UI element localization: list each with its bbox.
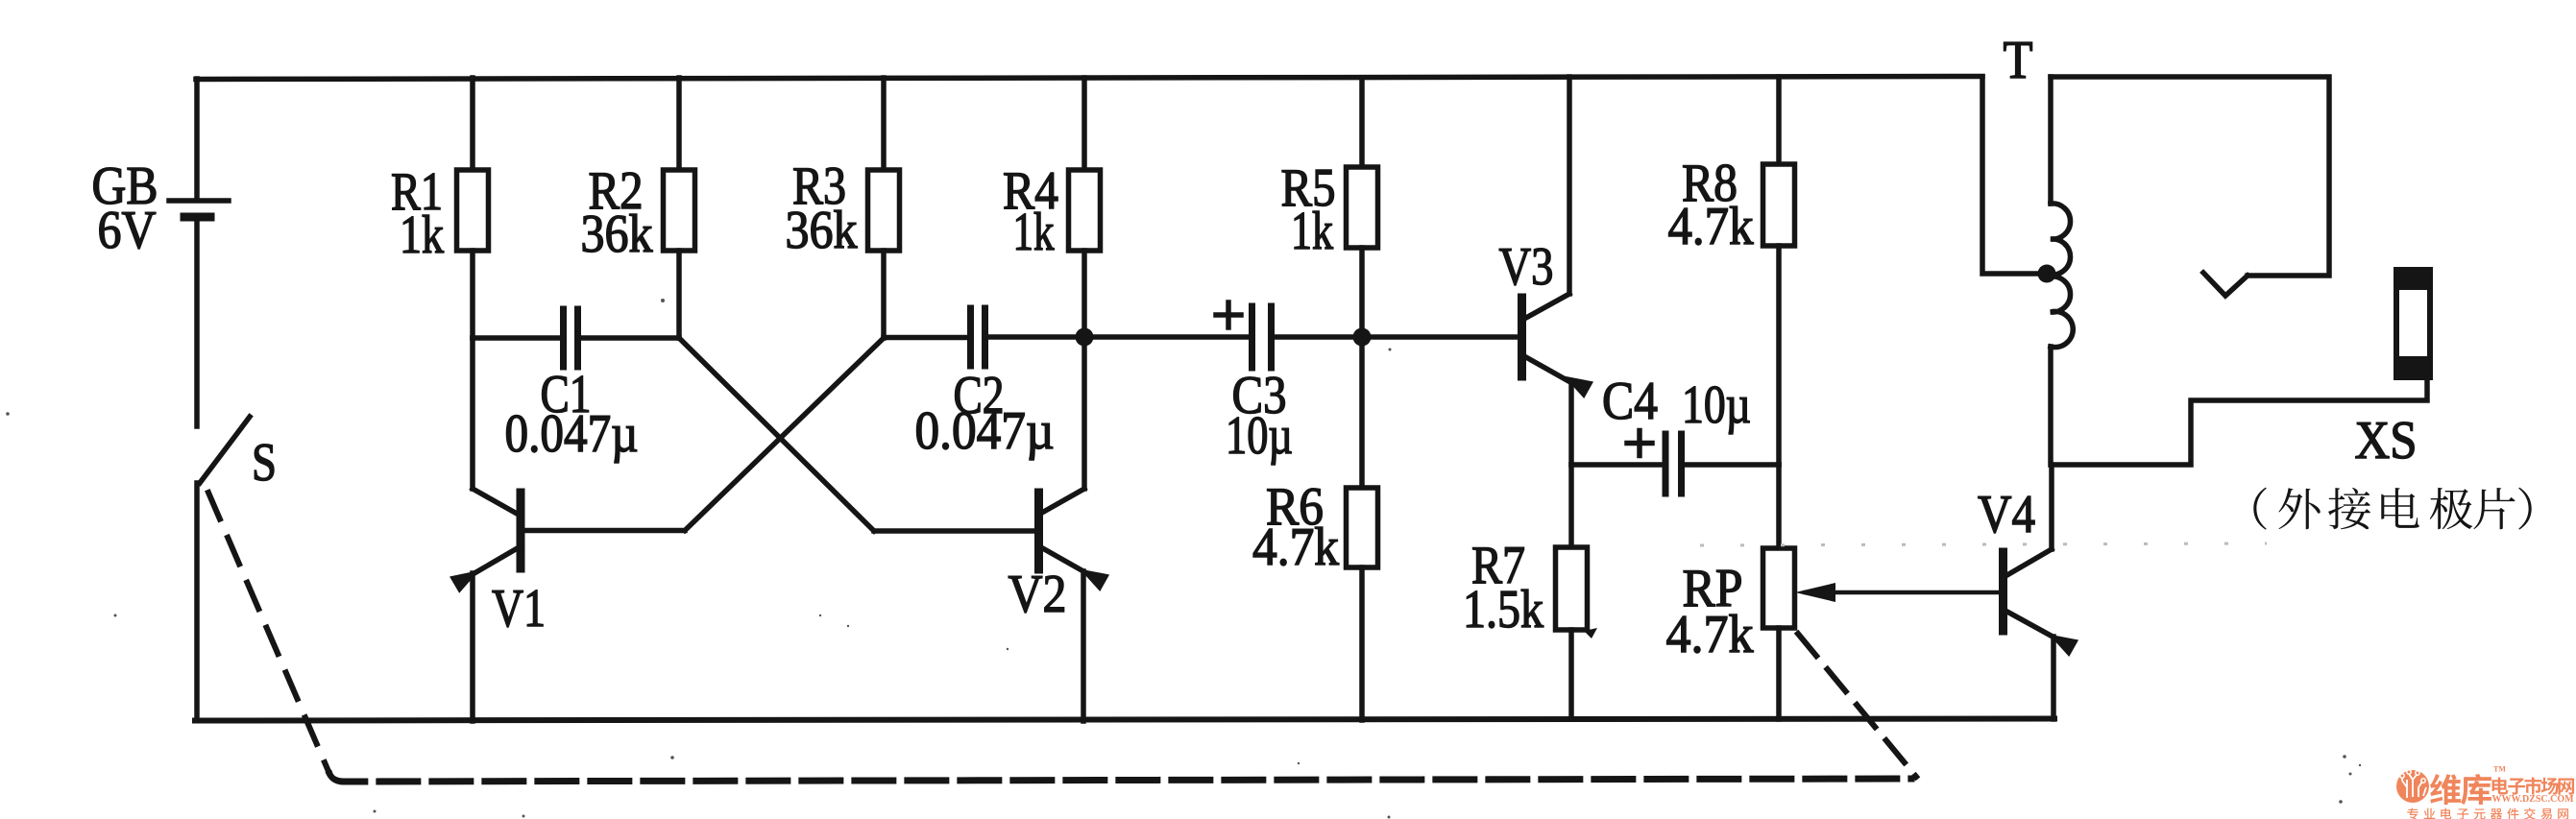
svg-text:36k: 36k: [786, 201, 858, 260]
resistor R1: [391, 78, 489, 338]
dashed linkage to RP: [1798, 634, 1916, 777]
transistor V2: [874, 337, 1109, 721]
resistor R6: [1252, 337, 1378, 720]
svg-text:WWW.DZSC.COM: WWW.DZSC.COM: [2492, 793, 2575, 805]
transistor V3: [1499, 77, 1594, 465]
resistor R5: [1281, 78, 1378, 338]
label XS Chinese block: [2253, 488, 2266, 530]
resistor R3: [786, 78, 900, 338]
wire transformer top loop: [2051, 77, 2329, 276]
svg-text:V4: V4: [1978, 485, 2035, 544]
svg-text:V2: V2: [1009, 565, 1067, 624]
watermark text: [2430, 774, 2461, 805]
wire left rail lower: [194, 483, 200, 720]
switch S: [200, 417, 277, 493]
svg-text:1k: 1k: [1013, 203, 1055, 262]
svg-text:4.7k: 4.7k: [1668, 197, 1754, 256]
svg-text:S: S: [252, 433, 277, 493]
dashed linkage bottom run: [329, 774, 1911, 782]
svg-text:T: T: [2004, 31, 2033, 90]
transistor V4: [1978, 465, 2078, 719]
dashed linkage from switch S: [208, 493, 328, 769]
faint scanner dotted row: [1700, 543, 2267, 545]
svg-text:10µ: 10µ: [1226, 406, 1293, 466]
plug symbol: [2203, 273, 2248, 296]
capacitor C4 electrolytic: [1571, 372, 1779, 494]
svg-text:XS: XS: [2355, 411, 2418, 470]
resistor R4: [1003, 78, 1101, 338]
transformer T autotransformer: [1982, 31, 2073, 465]
svg-text:1k: 1k: [400, 205, 444, 265]
resistor R8: [1668, 77, 1795, 465]
svg-text:0.047µ: 0.047µ: [915, 401, 1055, 461]
junction node C3/R5/R6: [1353, 328, 1372, 347]
transistor V1: [450, 338, 685, 721]
wire battery to switch: [194, 221, 200, 426]
wire node to V3 base: [1362, 334, 1520, 340]
watermark logo circle: [2396, 770, 2429, 803]
wire cross-coupling R2 to V2 base: [679, 338, 874, 531]
svg-text:C4: C4: [1602, 372, 1658, 431]
wire secondary to XS electrode: [2052, 378, 2427, 465]
svg-text:4.7k: 4.7k: [1252, 518, 1339, 577]
svg-text:V1: V1: [492, 579, 546, 638]
svg-text:10µ: 10µ: [1682, 375, 1751, 435]
potentiometer RP: [1666, 465, 2003, 719]
junction node C2/R4/V2: [1076, 328, 1094, 347]
svg-text:4.7k: 4.7k: [1666, 605, 1754, 664]
svg-text:TM: TM: [2493, 765, 2506, 774]
battery GB 6V: [92, 157, 230, 260]
wire bottom rail: [195, 719, 2054, 721]
wire left rail upper: [194, 79, 200, 199]
svg-text:1k: 1k: [1291, 202, 1333, 261]
svg-text:V3: V3: [1499, 237, 1554, 297]
svg-text:1.5k: 1.5k: [1463, 580, 1543, 639]
capacitor C3 electrolytic: [1084, 302, 1362, 466]
capacitor C1: [473, 309, 679, 464]
svg-text:36k: 36k: [581, 205, 653, 264]
scan noise specks: [6, 299, 2361, 819]
resistor R7: [1463, 465, 1597, 719]
wire top rail: [196, 77, 1982, 80]
electrode XS: [2355, 268, 2433, 470]
svg-text:6V: 6V: [98, 201, 157, 260]
wire cross-coupling R3 to V1 base: [685, 338, 884, 531]
capacitor C2: [884, 308, 1084, 461]
svg-text:0.047µ: 0.047µ: [505, 404, 639, 464]
resistor R2: [581, 78, 695, 338]
